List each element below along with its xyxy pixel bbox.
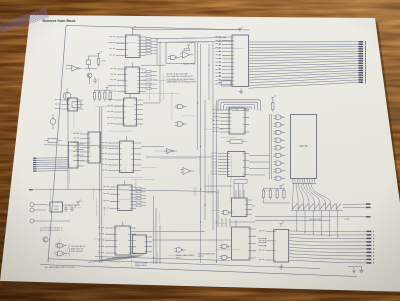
verticals below hatch — [296, 210, 298, 231]
IC U10 — [115, 226, 131, 255]
gate U12B — [178, 104, 183, 108]
capacitor C12 — [70, 205, 74, 212]
resistor pack RP2 — [136, 188, 141, 190]
divider X2 — [230, 140, 242, 144]
ground G2 — [279, 264, 283, 269]
sub block U14B — [222, 80, 232, 86]
coil internals — [246, 108, 249, 111]
misc top link — [133, 30, 240, 32]
inverter U1A — [72, 66, 78, 72]
resistor pack RP3 — [146, 71, 151, 73]
gate U12C — [178, 122, 183, 126]
gate U12A — [171, 55, 176, 59]
resistor R20 — [262, 190, 264, 197]
resistor R4 — [99, 92, 101, 99]
vertical bus C — [154, 196, 161, 264]
gate U18B — [57, 251, 62, 256]
gate U17C — [276, 130, 281, 134]
wire Q2 — [66, 88, 68, 104]
resistor R22 — [276, 190, 278, 197]
gate U17D — [276, 138, 281, 142]
capacitor C2 — [93, 77, 97, 84]
IC U11 — [133, 235, 147, 254]
+5V rail P5 — [187, 45, 190, 48]
big IC U20 — [291, 114, 317, 178]
IC U16 — [228, 152, 246, 177]
brace — [68, 245, 71, 257]
U20 bottom pins — [292, 178, 294, 182]
wire input to U1A — [66, 67, 68, 69]
vertical bus A — [100, 107, 102, 263]
wire Q1 emitter — [89, 68, 91, 84]
gate U17I — [276, 176, 281, 180]
+5V rail P8 — [280, 186, 283, 189]
gate U18A — [57, 243, 62, 248]
+5V rail P1 — [97, 54, 100, 57]
gate U22D — [177, 248, 182, 252]
jack J4 — [30, 219, 34, 223]
IC U14 — [232, 35, 249, 87]
wire long tape bus — [29, 189, 33, 191]
IC U15 — [229, 108, 245, 134]
subcircuit box comparator — [166, 42, 195, 63]
resistor R23 — [283, 190, 285, 197]
IC U9 — [118, 185, 133, 211]
diode D1 — [50, 119, 56, 125]
jack J3 — [30, 208, 34, 212]
IC U3A — [69, 142, 79, 168]
resistor R2 — [98, 59, 100, 65]
resistor R21 — [269, 190, 271, 197]
gate U17G — [276, 161, 281, 165]
gate U22B — [222, 244, 227, 248]
transistor Q1 — [87, 73, 92, 78]
wire regulator out — [46, 204, 80, 206]
junction dots — [99, 146, 100, 147]
IC U7 — [120, 141, 134, 173]
ground G3 — [359, 268, 363, 273]
+5V rail P9 — [280, 224, 283, 227]
torn tape at top-left corner — [0, 8, 49, 33]
resistor R3 — [93, 92, 95, 99]
op-amp U13 — [183, 52, 190, 59]
+5V rail P2 — [106, 88, 109, 91]
crystal Y1 — [86, 60, 90, 65]
output fan to connector — [289, 230, 367, 233]
wire bus to U14 — [157, 38, 232, 65]
wire links U16 to gate bus — [205, 156, 270, 199]
+5V rail P6 — [239, 29, 242, 32]
+5V rail P4 — [131, 29, 134, 32]
wire exit arrow bottom-right — [348, 267, 355, 273]
gate U22C — [222, 255, 227, 259]
transistor Q5 — [43, 237, 48, 242]
+5 rail top-left resistor pack — [95, 90, 111, 92]
module X1 — [72, 102, 81, 107]
pull-up rail — [264, 188, 286, 190]
vertical bus D — [198, 42, 217, 263]
gate U17A — [276, 115, 281, 119]
resistor R7 — [48, 139, 57, 143]
IC U4 — [126, 35, 141, 58]
bus into gate column — [270, 114, 272, 179]
option labels row — [255, 217, 366, 221]
data bus lines — [249, 41, 359, 43]
ground G1 — [239, 89, 243, 94]
U14 left pin labels — [219, 37, 221, 39]
wires hatch to right pads — [343, 204, 366, 208]
resistor pack RP1 — [146, 38, 151, 40]
regulator U19 7805 — [50, 202, 63, 212]
jack J2 — [30, 203, 34, 207]
+5V rail P3 — [77, 202, 80, 205]
gate U17E — [276, 146, 281, 150]
connector J1 pads — [33, 157, 36, 159]
schematic frame border — [40, 26, 357, 277]
op-amp U13B — [183, 168, 191, 175]
IC U23 — [232, 227, 251, 260]
gate U17H — [276, 169, 281, 173]
vertical bus B — [67, 100, 69, 190]
IC U21 — [232, 198, 248, 217]
gate U17F — [276, 153, 281, 157]
jumper block S1 — [291, 209, 343, 211]
fan from U20 to switch row — [293, 183, 294, 204]
IC U24 — [274, 229, 289, 262]
gate U22A — [224, 210, 229, 214]
wire gnd link — [355, 266, 362, 267]
wire feeders U21 U23 — [218, 190, 244, 227]
horizontal links — [44, 60, 320, 269]
wiring haze bus segments — [51, 38, 244, 268]
IC U2 — [68, 98, 78, 111]
resistor R15 — [272, 103, 274, 110]
transistor Q2 — [63, 92, 71, 100]
U24 input junction dots — [265, 238, 266, 239]
IC U8 — [88, 132, 101, 163]
delay-line coil nested loops — [218, 100, 261, 112]
wire fan from U11 — [112, 254, 134, 258]
wire U1A output — [84, 65, 97, 69]
label box U16 — [234, 179, 247, 183]
resistor R5 — [104, 92, 106, 99]
IC U6 — [124, 98, 137, 126]
wire resistor bottoms — [264, 200, 291, 203]
resistor R6 — [109, 92, 111, 99]
+5V rail P7 — [271, 98, 274, 101]
capacitor C11 — [64, 205, 68, 212]
gate U17B — [276, 123, 281, 127]
IC U5 — [125, 67, 140, 94]
resistor R10 — [184, 49, 190, 51]
inverter U13C — [167, 149, 172, 154]
